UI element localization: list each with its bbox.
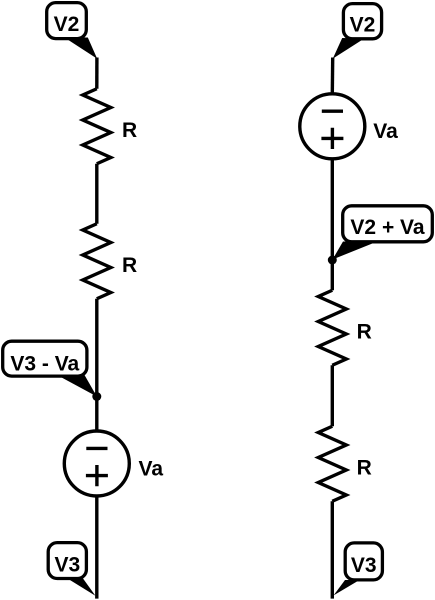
svg-text:V3: V3 xyxy=(351,554,377,577)
resistor R4 xyxy=(318,426,346,501)
voltage source Va (right) xyxy=(300,94,365,159)
wire from V2 callout to R1 (left branch) xyxy=(95,58,98,89)
label R (R4) xyxy=(357,457,372,480)
wire from R3 to R4 xyxy=(331,365,334,426)
callout label V2 (left) xyxy=(47,3,97,59)
callout label V3 (left bottom) xyxy=(48,543,95,596)
callout label V2 (right) xyxy=(333,4,382,59)
svg-text:Va: Va xyxy=(373,120,398,143)
label Va (right) xyxy=(373,120,398,143)
svg-text:V3 - Va: V3 - Va xyxy=(10,352,79,375)
wire from R4 to V3 callout (right) xyxy=(331,501,334,598)
svg-text:V2: V2 xyxy=(350,13,376,36)
callout label V2 + Va (right node) xyxy=(333,206,433,260)
svg-text:R: R xyxy=(357,457,372,480)
callout label V3 - Va (left node) xyxy=(3,341,97,396)
resistor R2 xyxy=(83,224,111,299)
node V3 - Va (junction dot) xyxy=(92,392,101,401)
voltage source Va (left) xyxy=(64,431,129,496)
wire from V2 callout to source Va (right branch) xyxy=(331,58,335,95)
callout label V3 (right bottom) xyxy=(334,543,383,596)
label R (R3) xyxy=(357,321,372,344)
svg-text:R: R xyxy=(122,254,137,277)
svg-text:Va: Va xyxy=(139,457,164,480)
svg-text:V3: V3 xyxy=(54,554,80,577)
svg-text:R: R xyxy=(122,119,137,142)
wire from source Va to V3 callout (left) xyxy=(95,496,98,599)
node V2 + Va (junction dot) xyxy=(328,256,337,265)
svg-text:R: R xyxy=(357,321,372,344)
svg-text:V2 + Va: V2 + Va xyxy=(350,216,424,239)
label R (R1) xyxy=(122,119,137,142)
resistor R1 xyxy=(83,89,111,164)
wire from R1 to R2 xyxy=(95,164,98,224)
svg-text:V2: V2 xyxy=(54,13,80,36)
wire from source Va through node to R3 (right) xyxy=(331,158,334,290)
resistor R3 xyxy=(318,290,346,365)
wire from R2 through node to source Va (left) xyxy=(95,299,98,432)
label R (R2) xyxy=(122,254,137,277)
label Va (left) xyxy=(139,457,164,480)
